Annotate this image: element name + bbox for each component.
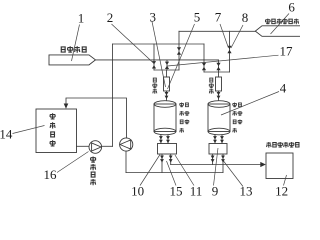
svg-text:13: 13: [240, 184, 253, 199]
wire box B2 outlet right to lower header: [222, 154, 224, 173]
vessel V1: [154, 104, 176, 132]
text 废水去反应池 above box 12: [267, 142, 271, 148]
text 清洗酸泵 below pump P16: [91, 157, 96, 163]
leader label 10: [140, 155, 160, 186]
wire branch g1-2 from A: [166, 60, 168, 70]
leader label 15: [167, 161, 177, 186]
arrowhead into tank 14: [64, 104, 69, 109]
arrowheads box B1 outlets: [160, 156, 164, 163]
svg-text:3: 3: [149, 10, 156, 25]
leader label 3: [152, 22, 166, 88]
leader label 14: [13, 126, 45, 134]
wire rotameter R1 bottom stub to vessel: [166, 91, 168, 101]
wire header group1: [154, 69, 179, 71]
svg-text:4: 4: [280, 81, 287, 96]
wire rotameter R2 top stub: [218, 72, 220, 77]
wire branch g1-1 from B: [153, 44, 155, 70]
wire wastewater main A: [96, 59, 219, 61]
svg-text:2: 2: [107, 10, 114, 25]
wire rotameter R2 bottom stub to vessel: [218, 91, 220, 101]
svg-text:7: 7: [215, 10, 222, 25]
text 二氧化氯容器罐 right of vessel V2: [233, 103, 237, 108]
leader label 2: [112, 24, 155, 64]
arrowheads below rotameter R1: [165, 92, 169, 99]
wire lower outlet header: [126, 172, 223, 174]
wire vessel V2 bottom outlets: [215, 135, 222, 144]
text 二氧化氯容器罐 right of vessel V1: [180, 103, 184, 108]
valve on branch g2-2: [216, 63, 220, 70]
wire branch g2-2 from A: [218, 60, 220, 72]
leader label 7: [220, 24, 228, 48]
wire vessel V1 bottom outlets: [161, 135, 168, 144]
text 废水入口 above inlet arrow: [61, 47, 66, 52]
wire ClO2 feed line C: [179, 30, 256, 32]
leader label 11: [175, 155, 194, 186]
wire rotameter R1 top stub: [166, 70, 168, 77]
svg-text:10: 10: [131, 184, 144, 199]
wire pump P16 outlet: [102, 145, 113, 147]
text 二氧化氯入口 above ClO2 arrow: [266, 19, 270, 25]
rotameter R1: [164, 77, 170, 91]
wire branch g1-3 from C: [178, 31, 180, 70]
pump P2: [120, 138, 133, 151]
svg-text:9: 9: [212, 184, 219, 199]
wire box B1 outlet left to lower header: [161, 154, 163, 173]
reaction tank box 12: [266, 153, 293, 179]
wire pump P16 riser to line B: [112, 44, 114, 146]
wire box B2 outlet left to upper header: [212, 154, 214, 165]
svg-text:1: 1: [78, 11, 85, 26]
arrowheads vessel V1 outlets: [159, 136, 163, 143]
distributor box B2: [209, 144, 227, 155]
leader label 16: [57, 152, 89, 173]
wire upper outlet header to reaction box: [171, 164, 261, 166]
valve on branch g2-3: [227, 46, 231, 53]
leader label 9: [214, 148, 219, 186]
leader label 17: [168, 55, 279, 66]
text 流量计 left of rotameter R1: [153, 78, 157, 82]
valve on branch g1-3: [177, 47, 181, 54]
svg-text:16: 16: [44, 167, 58, 182]
wire pump P2 bottom drop: [125, 151, 127, 172]
ClO2 inlet arrow 6: [255, 26, 300, 37]
wire branch g2-1 from B: [203, 44, 205, 72]
arrowheads vessel V2 outlets: [213, 136, 217, 143]
leader label 12: [284, 175, 287, 186]
wire tank to pump P16 suction: [77, 145, 90, 147]
arrowheads below rotameter R2: [217, 92, 221, 99]
text 流量计 left of rotameter R2: [209, 78, 213, 82]
valve on branch g1-2: [165, 62, 169, 69]
arrowhead into reaction box 12: [260, 162, 266, 167]
leader label 6: [271, 14, 290, 35]
pump P16: [89, 141, 102, 154]
svg-text:6: 6: [288, 0, 295, 15]
wire branch g2-3 from C: [229, 31, 231, 72]
svg-text:11: 11: [190, 184, 203, 199]
svg-text:5: 5: [194, 10, 201, 25]
distributor box B1: [158, 144, 177, 155]
leader label 13: [224, 161, 244, 187]
leader label 8: [231, 25, 243, 48]
leader label 4: [221, 92, 279, 116]
vessel V2: [208, 104, 230, 132]
tank 14: [36, 109, 77, 153]
svg-text:12: 12: [275, 184, 288, 199]
rotameter R2: [216, 77, 222, 91]
arrowheads box B2 outlets: [211, 156, 215, 163]
leader label 5: [168, 24, 195, 89]
wire distribution line B: [113, 43, 205, 45]
text 清洗酸槽 inside tank 14: [50, 113, 55, 119]
wastewater inlet arrow 1: [49, 55, 96, 65]
svg-text:8: 8: [242, 10, 249, 25]
wire header group2: [204, 71, 230, 73]
wire pump P2 top riser and tank return header: [66, 98, 127, 138]
valve on branch g1-1: [152, 61, 156, 68]
wire box B1 outlet right to upper header: [170, 154, 172, 165]
svg-text:14: 14: [0, 127, 13, 142]
valve on branch g2-1: [202, 63, 206, 70]
leader label 1: [72, 25, 80, 62]
svg-text:17: 17: [280, 44, 294, 59]
svg-text:15: 15: [170, 184, 183, 199]
